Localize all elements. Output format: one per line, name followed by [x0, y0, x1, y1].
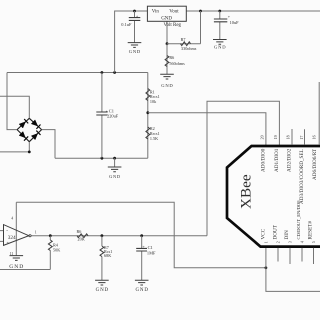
diode D2 (top-right, toward right) [29, 118, 41, 129]
node 10uF tap [218, 10, 221, 13]
svg-text:VCC: VCC [260, 228, 266, 239]
svg-text:AD0/DIO0: AD0/DIO0 [261, 148, 267, 172]
svg-text:GND: GND [9, 264, 23, 270]
capacitor C1 220uF [96, 112, 107, 115]
wire op-amp input stubs [0, 231, 4, 242]
wire R7 row [167, 43, 201, 45]
svg-text:GND: GND [135, 288, 148, 293]
resistor R2 1.5K [146, 127, 150, 139]
XBee module U3 outline [227, 146, 320, 247]
svg-text:GND: GND [161, 17, 172, 22]
svg-text:11: 11 [10, 252, 14, 256]
wire XBee pin1 stub [265, 248, 267, 268]
svg-text:2: 2 [276, 241, 281, 243]
svg-text:0.1uF: 0.1uF [121, 22, 132, 27]
XBee top pin stubs 18,17,16 [292, 82, 319, 145]
svg-text:+: + [228, 14, 231, 19]
svg-text:220uF: 220uF [107, 114, 119, 119]
svg-text:68K: 68K [104, 253, 111, 258]
svg-text:AD6/DIO6/RT: AD6/DIO6/RT [312, 148, 318, 180]
wire 10uF leads [219, 11, 221, 40]
svg-text:XBee: XBee [238, 174, 255, 209]
node C1 top [101, 71, 104, 74]
svg-text:-: - [6, 228, 8, 233]
resistor R1 10k [146, 89, 150, 101]
svg-text:5: 5 [311, 241, 316, 243]
wire AC input 2 (left edge to bridge bottom) [0, 142, 29, 152]
svg-text:4: 4 [11, 217, 13, 221]
svg-text:Volt Reg: Volt Reg [164, 23, 182, 28]
svg-text:GND: GND [109, 174, 120, 179]
svg-text:GND: GND [96, 288, 109, 293]
XBee bottom pin stubs 2,3,4,5 [278, 248, 314, 264]
svg-text:10k: 10k [150, 99, 157, 104]
ground (R6) [160, 74, 174, 79]
svg-text:1.5K: 1.5K [150, 136, 158, 141]
resistor R7 330ohms [181, 42, 191, 46]
svg-text:C1: C1 [148, 245, 153, 250]
op-amp U1 triangle [4, 225, 29, 246]
svg-text:CD/DOUT_EN/DO8: CD/DOUT_EN/DO8 [296, 200, 301, 240]
node R4 tap [49, 234, 52, 237]
svg-text:20K: 20K [78, 237, 85, 242]
node XBee VCC junction [265, 266, 268, 269]
capacitor C1b 1MF [136, 248, 147, 251]
ground (10uF) [213, 40, 227, 45]
wire R1 column [147, 73, 149, 113]
wire C1b leads [141, 236, 143, 280]
node bridge bottom junction [28, 151, 31, 154]
svg-text:DOUT: DOUT [273, 224, 279, 239]
svg-text:560ohms: 560ohms [169, 61, 185, 66]
svg-text:1: 1 [263, 241, 268, 243]
diode D1 (top-left, toward top) [17, 118, 29, 129]
svg-text:GND: GND [161, 83, 173, 88]
wire VCC to right edge [266, 268, 320, 292]
svg-text:R7: R7 [181, 37, 186, 42]
wire R4 column and return [0, 236, 50, 270]
node 0.1uF tap [133, 10, 136, 13]
ground (DC- rail) [108, 167, 122, 172]
wire 3.3V supply run [16, 202, 266, 267]
node rail ground tap [113, 157, 116, 160]
wire DC+ rail [7, 72, 148, 74]
wire rail ground stub [114, 158, 116, 167]
svg-text:GND: GND [214, 45, 226, 50]
ground (R7b) [95, 280, 109, 285]
wire R6 column [166, 44, 168, 74]
wire divider tap to XBee pin20 [148, 113, 266, 146]
wire to regulator Vin [115, 11, 148, 73]
svg-text:DIN: DIN [284, 230, 290, 239]
wire R7b column [101, 236, 103, 280]
svg-text:Vin: Vin [152, 10, 160, 15]
wire Vout rail [186, 10, 320, 12]
wire bridge left vertex to DC+ rail [7, 73, 17, 130]
svg-text:AD3/DIO3/COORD_SEL: AD3/DIO3/COORD_SEL [299, 149, 305, 204]
svg-text:GND: GND [129, 49, 141, 54]
svg-text:AD2/DIO2: AD2/DIO2 [287, 148, 293, 172]
svg-text:R6: R6 [77, 229, 82, 234]
capacitor 0.1uF [129, 18, 141, 21]
node R7 feed [199, 10, 202, 13]
ground (op-amp V-) [10, 256, 24, 261]
wire bridge right vertex to DC- rail [42, 130, 55, 159]
wire AC input 1 (left edge to bridge top) [0, 96, 29, 118]
resistor R6b 20K [77, 234, 88, 238]
svg-text:Vout: Vout [169, 10, 179, 15]
wire op-amp supply column [15, 202, 17, 255]
svg-text:10uF: 10uF [230, 20, 240, 25]
svg-text:1: 1 [35, 230, 37, 234]
svg-text:330ohms: 330ohms [181, 46, 197, 51]
capacitor 10uF [214, 19, 227, 22]
svg-text:17: 17 [299, 136, 304, 140]
resistor R4 50K [48, 240, 52, 251]
wire 0.1uF leads [134, 11, 136, 43]
node Vin branch [113, 71, 116, 74]
wire regulator GND pin [166, 21, 168, 43]
wire op-amp output row [31, 235, 207, 237]
node C1 bottom [101, 157, 104, 160]
svg-text:+: + [7, 240, 10, 245]
ground (C1b) [135, 280, 149, 285]
node regulator gnd junction [166, 42, 169, 45]
svg-text:50K: 50K [53, 247, 60, 252]
svg-text:AD1/DIO1: AD1/DIO1 [274, 148, 280, 172]
node R7b tap [101, 234, 104, 237]
svg-text:RESET#: RESET# [307, 221, 313, 240]
wire op-amp signal to XBee pin19 [207, 101, 279, 236]
svg-text:16: 16 [311, 135, 316, 139]
resistor R7b 68K [100, 246, 104, 257]
wire DC- rail [55, 157, 148, 159]
svg-text:18: 18 [286, 135, 291, 139]
wire C1 branch [101, 73, 103, 159]
node divider tap [146, 111, 149, 114]
op-amp output bubble [29, 235, 31, 237]
diode D3 (bottom-left, toward bottom) [17, 130, 29, 142]
node C1b tap [140, 234, 143, 237]
svg-text:20: 20 [259, 135, 264, 139]
voltage regulator U2 box [147, 6, 186, 21]
wire R2 column [147, 113, 149, 159]
svg-text:19: 19 [273, 135, 278, 139]
svg-text:4: 4 [299, 241, 304, 243]
svg-text:3: 3 [287, 241, 292, 243]
diode D4 (bottom-right, toward right) [29, 130, 41, 142]
ground (0.1uF) [128, 43, 142, 48]
svg-text:R6: R6 [169, 55, 174, 60]
svg-text:1MF: 1MF [147, 251, 156, 256]
resistor R6 560ohms [165, 56, 169, 67]
wire Vout to R7 [200, 11, 202, 44]
